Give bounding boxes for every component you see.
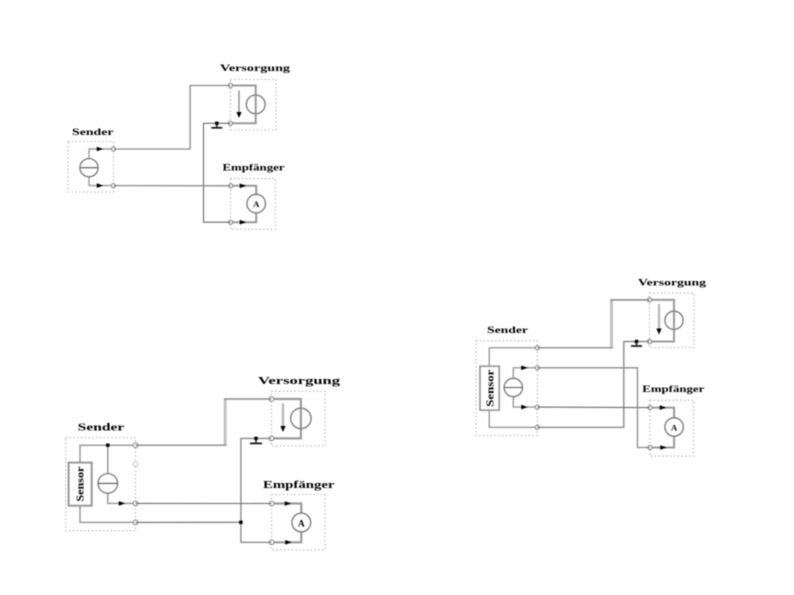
wire sensor loop bottom: [80, 506, 136, 523]
junction dot sender top wire: [106, 444, 109, 447]
sender box (dashed): [66, 438, 136, 531]
junction dot ground riser: [239, 521, 242, 524]
wire versorgung2 inner loop: [271, 399, 301, 438]
terminal versorgung3 top: [647, 298, 651, 302]
wire empfaenger inner loop: [231, 186, 257, 222]
ammeter symbol: [247, 194, 266, 213]
arrow on sender signal wire: [119, 501, 126, 506]
wire through voltage source 2: [300, 408, 302, 428]
empfaenger box (dashed): [231, 179, 276, 230]
current source bar 3: [504, 387, 522, 389]
sender box 3 (dashed): [476, 341, 537, 436]
ammeter symbol 3: [665, 418, 683, 436]
terminal empfaenger2 top: [269, 501, 274, 506]
current source bar 2: [98, 482, 118, 484]
arrow on sender bottom wire: [97, 183, 104, 188]
ammeter symbol 2: [292, 513, 311, 532]
voltage source symbol (versorgung 3): [665, 311, 683, 329]
wire sensor3 loop bottom: [489, 410, 537, 427]
svg-text:Empfänger: Empfänger: [223, 162, 286, 173]
svg-text:Versorgung: Versorgung: [258, 375, 341, 387]
terminal versorgung2 bottom: [269, 436, 274, 441]
terminal versorgung bottom: [228, 121, 232, 125]
svg-text:A: A: [671, 423, 678, 433]
terminal versorgung2 top: [269, 397, 274, 402]
terminal empfaenger2 bottom: [269, 540, 274, 545]
sensor rectangle 3: [480, 366, 499, 410]
sender box (dashed): [68, 142, 114, 193]
arrow on empfaenger2 top wire: [285, 501, 292, 506]
wire source3 top branch: [513, 368, 537, 379]
terminal empfaenger3 bottom: [648, 445, 652, 449]
wire versorgung inner loop: [230, 86, 255, 124]
arrow on sender3 t2 wire: [521, 366, 528, 371]
wire sensor loop left: [80, 445, 136, 462]
voltage direction arrow: [236, 91, 241, 119]
ground symbol (circuit 2): [250, 437, 262, 444]
wire sender2-t3 to ground riser: [136, 521, 241, 523]
svg-text:Versorgung: Versorgung: [220, 63, 290, 74]
svg-text:Sensor: Sensor: [76, 466, 87, 501]
current source symbol (sender): [80, 159, 98, 177]
voltage source symbol (versorgung): [246, 95, 265, 114]
wire sender inner bottom: [89, 176, 114, 186]
current source bar: [80, 167, 97, 169]
arrow on empfaenger top wire: [240, 184, 247, 189]
svg-text:Sensor: Sensor: [486, 369, 497, 407]
wire sender2-t2 to empfaenger2-top: [136, 502, 272, 504]
wire sender3-t2 to empfaenger3-bottom: [537, 368, 650, 448]
wire sender3-t3 to empfaenger3-top: [537, 406, 650, 409]
wire versorgung2-bottom to empfaenger2-bottom: [241, 438, 272, 542]
arrow on sender top wire: [97, 147, 104, 152]
terminal sender2 unused: [133, 462, 138, 467]
wire empfaenger3 inner loop: [650, 408, 674, 448]
arrow on empfaenger bottom wire: [240, 220, 247, 225]
wire riser sender2-t1 to versorgung2-top: [224, 399, 227, 445]
wire sender-bottom to empfaenger-top: [114, 185, 231, 187]
svg-text:Sender: Sender: [78, 422, 125, 434]
wire empfaenger2 inner loop: [272, 504, 302, 543]
terminal sender2 t3: [133, 520, 138, 525]
voltage direction arrow 3: [656, 304, 661, 335]
svg-text:A: A: [253, 199, 260, 209]
wire current source branch: [108, 445, 136, 503]
svg-text:A: A: [298, 518, 305, 528]
wire sender3-t1 horizontal: [537, 347, 613, 349]
wire versorgung3 inner loop: [650, 300, 675, 342]
current source symbol (sender 3): [504, 378, 522, 396]
wire sensor3 loop top: [489, 348, 537, 366]
wire riser sender3-t1 to versorgung3-top: [610, 300, 613, 348]
terminal empfaenger bottom: [229, 220, 233, 224]
versorgung box 2 (dashed): [271, 391, 325, 446]
versorgung box 3 (dashed): [650, 293, 695, 347]
arrow on empfaenger3 bottom wire: [660, 445, 667, 450]
voltage source symbol (versorgung 2): [291, 408, 311, 428]
terminal sender3 t4: [535, 425, 539, 429]
svg-text:Empfänger: Empfänger: [642, 384, 705, 395]
terminal sender2 t2: [133, 501, 138, 506]
empfaenger box 3 (dashed): [650, 400, 694, 456]
ground symbol (circuit 3): [631, 340, 642, 346]
wire sender2-t1 horizontal: [136, 444, 227, 446]
wire sender-top to versorgung-top: [114, 86, 231, 150]
terminal versorgung top: [228, 83, 232, 87]
ground symbol (circuit 1): [211, 122, 222, 128]
wire versorgung-bottom to empfaenger-bottom: [204, 123, 231, 222]
terminal empfaenger top: [229, 184, 233, 188]
svg-text:Sender: Sender: [487, 325, 529, 336]
arrow on empfaenger3 top wire: [660, 405, 667, 410]
terminal versorgung3 bottom: [647, 339, 651, 343]
current source symbol (sender 2): [98, 474, 118, 494]
svg-text:Versorgung: Versorgung: [638, 277, 706, 288]
terminal sender top: [111, 147, 115, 151]
wire riser3 top horizontal: [610, 299, 649, 301]
wire sender inner top: [89, 149, 114, 159]
wire versorgung3-bottom to sender3-t4: [537, 342, 649, 428]
empfaenger box 2 (dashed): [272, 495, 325, 550]
svg-text:Sender: Sender: [72, 127, 114, 138]
terminal sender3 t1: [535, 346, 539, 350]
arrow on sender3 t3 wire: [521, 405, 528, 410]
wire riser2 top horizontal: [224, 398, 271, 400]
voltage direction arrow 2: [280, 403, 285, 432]
versorgung box (dashed): [230, 80, 276, 131]
terminal empfaenger3 top: [648, 406, 652, 410]
terminal sender2 t1: [133, 443, 138, 448]
terminal sender3 t3: [535, 405, 539, 409]
terminal sender3 t2: [535, 366, 539, 370]
wire source3 bottom branch: [513, 397, 537, 408]
svg-text:Empfänger: Empfänger: [263, 479, 335, 491]
wire through voltage source 3: [673, 311, 675, 329]
sensor rectangle: [69, 463, 92, 506]
wire through voltage source: [255, 95, 257, 114]
arrow on empfaenger2 bottom wire: [285, 540, 292, 545]
terminal sender bottom: [111, 184, 115, 188]
